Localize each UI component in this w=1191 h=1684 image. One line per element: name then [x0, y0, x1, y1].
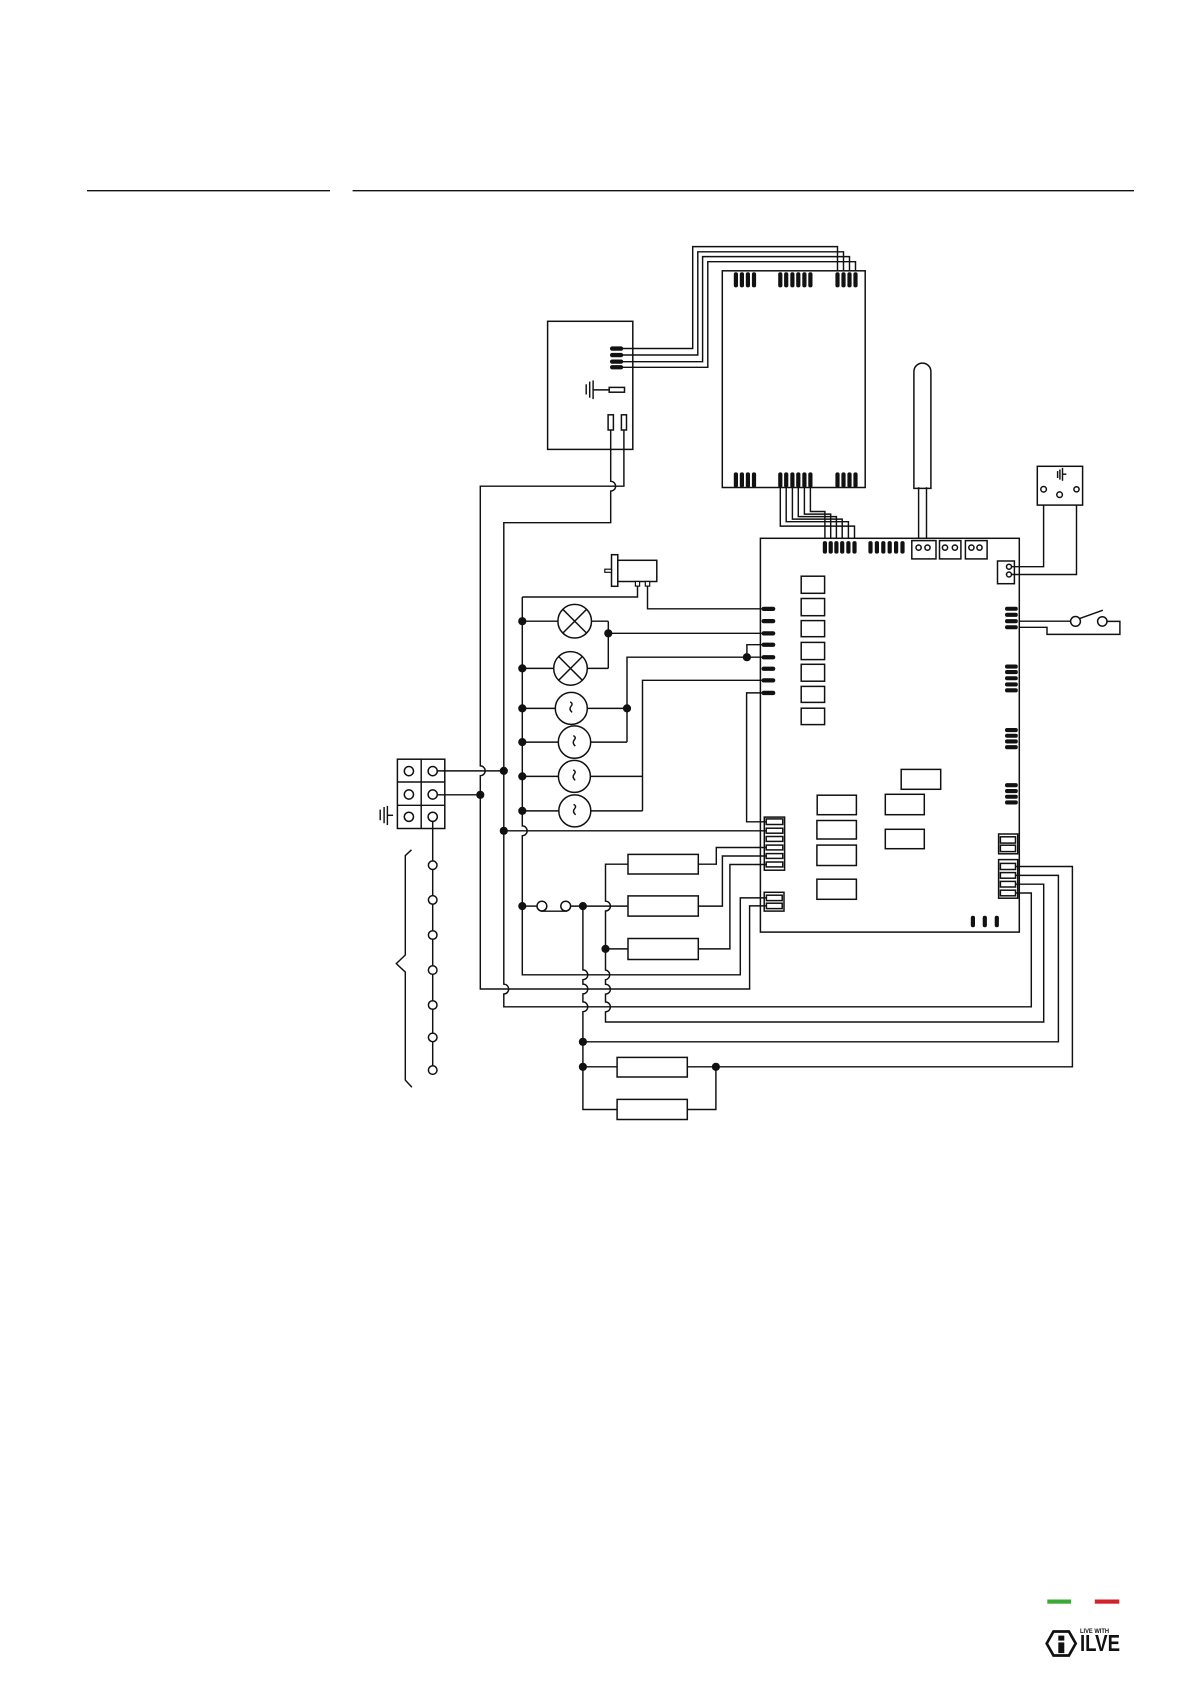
U1 bottom connector CN5: [778, 472, 812, 487]
wire display pinA phase run: [504, 430, 1032, 1007]
resistor R5: [617, 1099, 687, 1119]
supply bus phase wire: [522, 597, 766, 975]
wire CN5.2 to main board: [786, 488, 848, 542]
lamp E1 leads: [522, 620, 608, 622]
brace for S1: [396, 850, 412, 1087]
fan motor M2: [558, 726, 590, 758]
wire X1 phase: [437, 770, 504, 772]
U3 relay K11: [817, 795, 856, 815]
U3 relay K8: [901, 769, 941, 789]
selector switch chain S1: [428, 821, 437, 1074]
U3 right connector CN16 two slots: [999, 834, 1018, 854]
wire CN5.1 to main board: [780, 488, 854, 542]
U3 relay K13: [817, 845, 857, 865]
door switch S2: [1071, 610, 1107, 626]
element R1 left vertical and bottom row 4: [606, 864, 1044, 1022]
U3 right pin group CN11: [1005, 665, 1018, 693]
node bus M1: [518, 704, 526, 712]
ILVE hexagon logo: [1047, 1632, 1076, 1656]
U3 socket J5: [965, 541, 987, 559]
fan motor M3: [558, 760, 590, 792]
thermostat TH1: [605, 555, 657, 587]
node bus M2: [518, 738, 526, 746]
wire row 6 to CN17.1: [716, 867, 1073, 1067]
heating element R2: [628, 896, 698, 916]
U1 top connector CN2: [778, 272, 812, 287]
probe lead 2: [926, 487, 928, 545]
ground symbol in X2: [1058, 468, 1067, 481]
U3 left connector CN14 six slots: [764, 817, 784, 870]
wire J6.2 to terminal block X2: [1012, 492, 1077, 575]
U3 right connector CN17 four slots: [999, 860, 1018, 899]
U3 mains socket J6: [998, 561, 1015, 584]
U3 relay bank K1-K7: [801, 576, 824, 724]
main control board U3: [760, 538, 1019, 932]
U3 right pin group CN10: [1005, 607, 1018, 630]
motor M1 leads: [522, 707, 627, 709]
wire CN5.5 to main board: [804, 488, 830, 542]
wire row 5 to CN17.2: [583, 875, 1059, 1041]
U3 socket J4: [940, 541, 961, 559]
wire display pinB neutral run: [480, 430, 766, 989]
node resistor right: [712, 1063, 720, 1071]
temperature probe B1: [914, 363, 931, 488]
node bus M4: [518, 807, 526, 815]
U3 bottom pins: [971, 916, 999, 928]
resistor R5 loop: [583, 1067, 716, 1110]
node M1 junction: [623, 704, 631, 712]
wire J2.2 to U1: [623, 252, 844, 355]
heating element R3: [628, 939, 698, 960]
wire CN5.3 to main board: [792, 488, 842, 542]
wire J2.4 to U1: [623, 262, 856, 368]
element R1 right wire to CN14.4: [698, 848, 766, 865]
fan motor M4: [559, 795, 591, 827]
door switch S2 wire b: [1019, 621, 1120, 634]
door switch S2 wire a: [1019, 620, 1070, 622]
flag bar green: [1047, 1600, 1071, 1604]
node switch element R2: [579, 902, 587, 910]
switch vertical to lower resistors: [583, 906, 588, 1067]
U1 bottom connector CN4: [734, 472, 756, 487]
node bus M3: [518, 772, 526, 780]
U3 left connector CN15 two slots: [764, 892, 784, 911]
node resistor left: [579, 1063, 587, 1071]
display board output pins: [608, 415, 613, 430]
motor M3 M4 vertical to CN9.7: [643, 680, 762, 811]
node element R3 tap: [601, 945, 609, 953]
motor M1 M2 vertical to CN9.5: [627, 657, 762, 742]
node lamp tap: [604, 629, 612, 637]
display PCB U1: [722, 271, 865, 488]
wire J6.1 to terminal block X2: [1012, 492, 1044, 567]
lamp shared vertical to CN9.3: [608, 621, 761, 668]
header rule left: [87, 190, 330, 192]
motor M4 leads: [522, 810, 642, 812]
node bus switch: [518, 902, 526, 910]
U3 relay K10: [885, 829, 924, 848]
node jog: [743, 653, 751, 661]
motor M2 leads: [522, 741, 627, 743]
flag bar red: [1095, 1600, 1120, 1604]
node phase X1 junction: [500, 767, 508, 775]
terminal block X1: [397, 759, 444, 828]
connector J2 pins on display board: [610, 346, 623, 369]
oven lamp E1: [558, 604, 592, 638]
lamp E2 leads: [522, 667, 608, 669]
heating element R1: [628, 854, 698, 874]
motor M3 leads: [522, 775, 642, 777]
U3 relay K14: [817, 879, 857, 899]
U1 top connector CN1: [734, 272, 756, 287]
node bus lamp E1: [518, 617, 526, 625]
wire CN5.6 to main board: [810, 488, 825, 542]
wire CN5.4 to main board: [798, 488, 836, 542]
U1 top connector CN3: [835, 272, 857, 287]
wire CN9.8 to CN14.1: [747, 693, 767, 822]
U3 left pin row CN9: [762, 607, 776, 695]
wire J2.1 to U1: [623, 247, 838, 349]
header rule right: [353, 190, 1134, 192]
element R2 right wire to CN14.5: [698, 856, 766, 906]
resistor R4: [617, 1057, 687, 1077]
jog wire CN9.4: [747, 645, 762, 658]
node row 5 tap: [579, 1038, 587, 1046]
chassis ground in display board: [586, 380, 609, 399]
fuse F1 in display board: [609, 387, 624, 392]
node phase CN14 tap: [500, 827, 508, 835]
element R3 left lead: [606, 948, 629, 950]
ground symbol at X1: [380, 806, 393, 825]
thermostat wire to CN9.1: [648, 586, 762, 609]
U3 right pin group CN12: [1005, 728, 1018, 749]
resistor R4 leads: [583, 1066, 716, 1068]
element R3 right wire to CN14.6: [698, 865, 766, 949]
thermostat wire to bus: [522, 586, 637, 597]
U3 right pin group CN13: [1005, 783, 1018, 804]
U3 relay K9: [885, 794, 924, 814]
wire X1 neutral: [437, 794, 480, 796]
fan motor M1: [555, 692, 587, 724]
U3 relay K12: [817, 821, 857, 840]
display board U2: [548, 321, 633, 449]
U3 top connector CN7: [823, 541, 857, 554]
svg-text:ILVE: ILVE: [1080, 1630, 1120, 1656]
wire phase to CN14.2: [504, 830, 766, 832]
oven switch S3: [522, 901, 628, 911]
U1 bottom connector CN6: [835, 472, 857, 487]
probe lead 1: [918, 487, 920, 545]
U3 top connector CN8: [868, 541, 904, 554]
U3 probe socket J3: [912, 541, 936, 559]
node bus lamp E2: [518, 664, 526, 672]
terminal block X2: [1037, 466, 1082, 505]
oven lamp E2: [554, 652, 588, 686]
node neutral X1 junction: [476, 791, 484, 799]
wire J2.3 to U1: [623, 257, 850, 362]
